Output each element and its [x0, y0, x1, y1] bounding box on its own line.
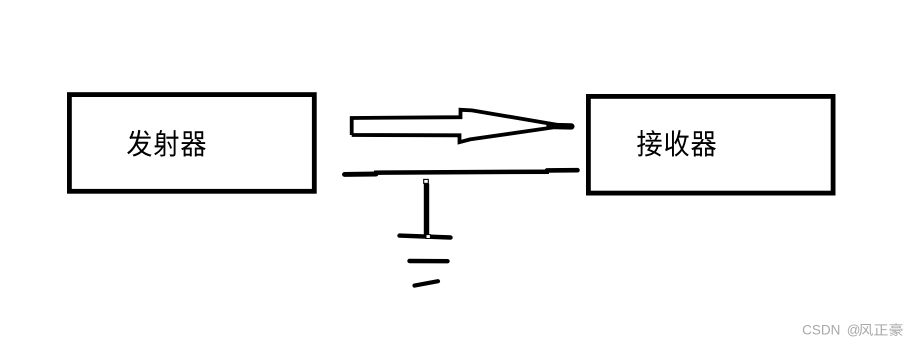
svg-text:CSDN: CSDN: [802, 323, 840, 338]
svg-text:@: @: [847, 323, 861, 338]
